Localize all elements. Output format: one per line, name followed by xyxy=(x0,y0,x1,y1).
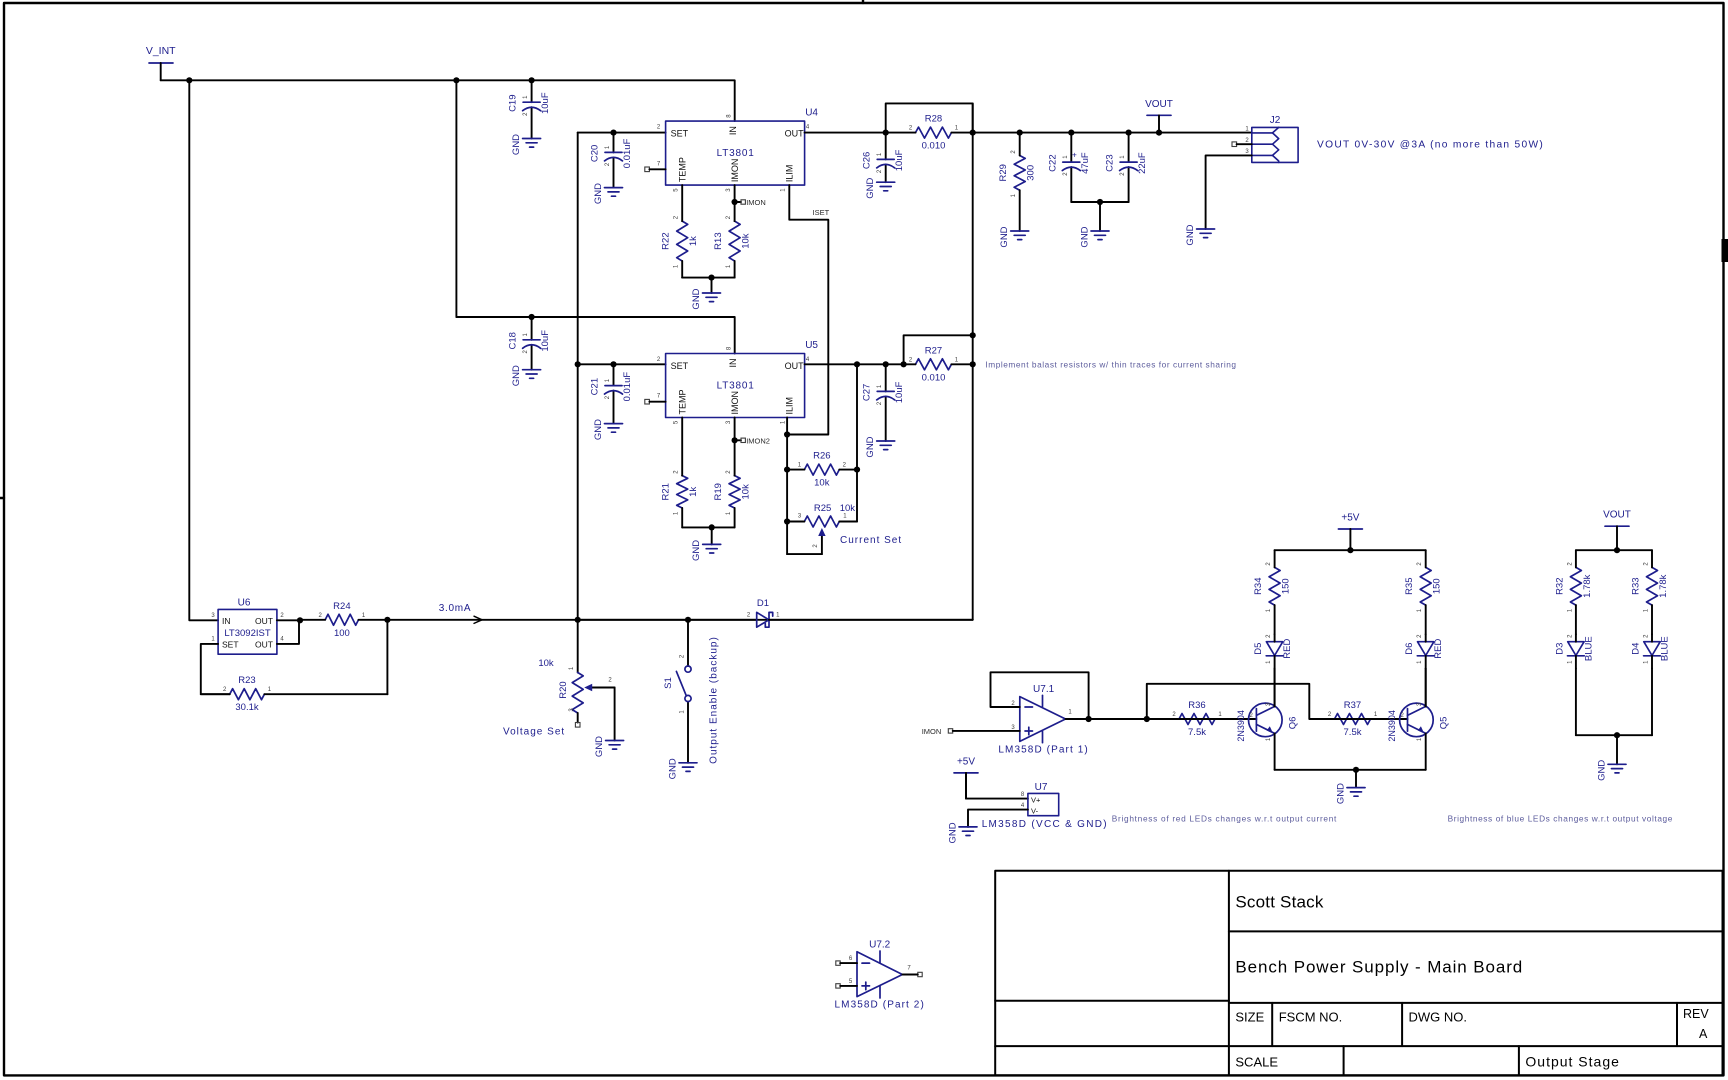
svg-text:C21: C21 xyxy=(590,378,601,395)
potentiometer R20 10k Voltage Set xyxy=(572,673,583,714)
svg-text:7.5k: 7.5k xyxy=(1188,727,1206,738)
svg-text:10k: 10k xyxy=(538,658,554,669)
svg-text:IMON: IMON xyxy=(730,159,740,183)
no-connect J2 pin2 xyxy=(1232,142,1237,147)
svg-text:R22: R22 xyxy=(661,232,672,249)
svg-text:D6: D6 xyxy=(1404,643,1415,655)
no-connect R20 pin3 xyxy=(575,723,580,728)
wire Q6 collector xyxy=(1274,668,1276,706)
svg-text:RED: RED xyxy=(1433,639,1444,659)
ground xyxy=(959,827,977,836)
LED D5 RED xyxy=(1266,642,1283,656)
resistor R22 1k xyxy=(677,221,688,261)
svg-text:IN: IN xyxy=(222,616,231,626)
svg-text:V+: V+ xyxy=(1031,795,1041,804)
svg-text:SET: SET xyxy=(222,639,239,649)
power symbol VOUT xyxy=(1147,114,1171,116)
wire D5 to Q6 collector xyxy=(1274,668,1276,706)
junction R27 right node xyxy=(970,361,976,367)
switch S1 Output Enable xyxy=(687,620,689,763)
svg-text:U6: U6 xyxy=(238,598,251,609)
svg-text:OUT: OUT xyxy=(255,616,273,626)
svg-text:150: 150 xyxy=(1432,578,1443,594)
wire branch to R37 xyxy=(1147,684,1335,719)
power symbol V_INT xyxy=(149,62,173,64)
svg-text:R36: R36 xyxy=(1188,700,1205,711)
svg-text:47uF: 47uF xyxy=(1080,152,1091,174)
svg-text:3.0mA: 3.0mA xyxy=(439,603,471,614)
diode D1 schottky xyxy=(757,612,773,627)
resistor R24 100 xyxy=(325,614,358,625)
wire top rail V_INT xyxy=(161,80,735,121)
svg-text:C22: C22 xyxy=(1047,154,1058,171)
svg-text:1k: 1k xyxy=(688,487,699,497)
svg-text:Voltage Set: Voltage Set xyxy=(503,727,565,738)
current arrow 3.0mA xyxy=(474,616,482,623)
svg-text:GND: GND xyxy=(865,178,876,199)
svg-text:GND: GND xyxy=(691,540,702,561)
capacitor C22 47uF xyxy=(1070,133,1072,202)
svg-text:R23: R23 xyxy=(238,675,255,686)
ground xyxy=(1347,788,1365,797)
junction VOUT tap blue xyxy=(1614,547,1620,553)
svg-text:TEMP: TEMP xyxy=(678,389,688,414)
wire J2 pin3 to gnd xyxy=(1206,155,1252,229)
svg-text:GND: GND xyxy=(511,365,522,386)
svg-text:U4: U4 xyxy=(805,108,818,119)
svg-text:1k: 1k xyxy=(688,236,699,246)
ground xyxy=(703,293,721,302)
resistor R29 300 xyxy=(1014,156,1025,191)
wire blue gnd stub xyxy=(1616,735,1618,764)
svg-text:C19: C19 xyxy=(508,94,519,111)
svg-text:D4: D4 xyxy=(1631,643,1642,655)
junction R27 loop right xyxy=(970,332,976,338)
svg-text:10uF: 10uF xyxy=(540,92,551,114)
regulator U4 LT3801 xyxy=(666,121,805,185)
svg-text:R21: R21 xyxy=(661,483,672,500)
ground xyxy=(877,182,895,191)
svg-text:Bench Power Supply - Main Boar: Bench Power Supply - Main Board xyxy=(1235,958,1523,977)
svg-text:R25: R25 xyxy=(814,503,831,514)
resistor R35 150 xyxy=(1420,567,1431,605)
wire V_INT stub xyxy=(160,63,162,80)
junction rail/C18 column xyxy=(453,77,459,83)
wire U6 OUT pin2 xyxy=(277,619,300,621)
svg-text:RED: RED xyxy=(1282,639,1293,659)
resistor R26 10k xyxy=(804,464,839,475)
svg-text:ISET: ISET xyxy=(813,208,830,217)
junction R25 left node xyxy=(784,518,790,524)
wire output sharing vertical xyxy=(972,103,974,619)
connector J2 xyxy=(1252,127,1298,162)
svg-text:OUT: OUT xyxy=(255,639,273,649)
capacitor C18 10uF xyxy=(531,317,533,370)
junction IMON2 tap xyxy=(732,437,738,443)
junction R24/R23 node xyxy=(384,617,390,623)
junction cap gnd row xyxy=(1097,199,1103,205)
svg-text:U5: U5 xyxy=(805,340,818,351)
LED D4 BLUE xyxy=(1644,642,1661,656)
op-amp U7.2 LM358D unused xyxy=(857,951,902,998)
wire U5 OUT wire xyxy=(805,363,904,365)
junction R26 left node xyxy=(784,467,790,473)
svg-text:TEMP: TEMP xyxy=(678,157,688,182)
op-amp power U7 LM358D VCC/GND xyxy=(1028,793,1059,815)
wire OUT node down to R26/R25 xyxy=(856,364,858,521)
wire left column to U6 xyxy=(189,80,218,620)
svg-text:VOUT: VOUT xyxy=(1603,510,1631,521)
wire ILIM down xyxy=(786,435,788,555)
svg-text:10uF: 10uF xyxy=(540,330,551,352)
svg-text:Brightness of blue LEDs change: Brightness of blue LEDs changes w.r.t ou… xyxy=(1448,814,1673,824)
svg-text:R20: R20 xyxy=(558,681,569,698)
wire U4 IMON pin xyxy=(734,185,736,221)
resistor R34 150 xyxy=(1269,567,1280,605)
resistor R28 0.010 xyxy=(916,127,952,138)
transistor Q5 2N3904 xyxy=(1400,703,1434,737)
wire D6 to Q5 collector xyxy=(1425,668,1427,706)
svg-text:10k: 10k xyxy=(814,478,830,489)
junction U6 out node xyxy=(297,617,303,623)
wire Q5 emitter xyxy=(1425,733,1427,769)
wire U7 pin4 to gnd xyxy=(968,810,1028,827)
svg-text:Scott Stack: Scott Stack xyxy=(1235,893,1323,912)
ground xyxy=(1091,231,1109,240)
svg-text:300: 300 xyxy=(1026,165,1037,181)
net label IMON2 xyxy=(741,438,745,442)
wire R21/R19 gnd row xyxy=(682,526,734,528)
svg-text:Q5: Q5 xyxy=(1438,717,1449,730)
wire IMON2 label stub xyxy=(735,439,741,441)
wire R36 to Q6 base xyxy=(1215,718,1256,720)
junction C18 tap xyxy=(529,314,535,320)
svg-text:GND: GND xyxy=(999,226,1010,247)
svg-text:7.5k: 7.5k xyxy=(1344,727,1362,738)
svg-text:R32: R32 xyxy=(1554,577,1565,594)
wire opamp output xyxy=(1066,718,1180,720)
junction SET vertical / U5 SET xyxy=(575,361,581,367)
wire U4 OUT wire xyxy=(805,132,886,134)
svg-text:10k: 10k xyxy=(840,503,856,514)
wire R25 wiper loop xyxy=(787,553,822,555)
svg-text:GND: GND xyxy=(1080,226,1091,247)
svg-text:SET: SET xyxy=(671,361,689,371)
potentiometer R25 10k Current Set xyxy=(804,516,839,527)
svg-text:D5: D5 xyxy=(1253,643,1264,655)
svg-text:R26: R26 xyxy=(813,451,830,462)
svg-text:U7.1: U7.1 xyxy=(1033,684,1055,695)
wire IMON label stub xyxy=(735,201,741,203)
wire U4 TEMP pin xyxy=(681,185,683,221)
junction R29 tap xyxy=(1017,130,1023,136)
junction rail/U6 column xyxy=(186,77,192,83)
wire SET vertical xyxy=(577,133,579,673)
ground xyxy=(605,188,623,197)
junction SET column node xyxy=(575,617,581,623)
svg-text:SET: SET xyxy=(671,129,689,139)
ground xyxy=(679,763,697,772)
op-amp U7.1 LM358D xyxy=(1020,695,1066,742)
svg-text:+5V: +5V xyxy=(957,756,975,767)
svg-text:1.78k: 1.78k xyxy=(1582,574,1593,597)
resistor R37 7.5k xyxy=(1335,714,1371,725)
resistor R27 0.010 xyxy=(916,359,952,370)
resistor R33 1.78k xyxy=(1647,567,1658,605)
svg-text:C26: C26 xyxy=(862,152,873,169)
wire IMON to +in xyxy=(953,730,1020,732)
wire D1 cathode wire xyxy=(769,619,973,621)
wire D3 down xyxy=(1575,668,1577,735)
svg-text:LM358D (Part 1): LM358D (Part 1) xyxy=(998,745,1088,756)
ground xyxy=(1608,764,1626,773)
junction +5V tap xyxy=(1347,547,1353,553)
junction SET rail / C21 xyxy=(610,361,616,367)
svg-text:Output Enable (backup): Output Enable (backup) xyxy=(709,636,720,764)
svg-text:GND: GND xyxy=(594,736,605,757)
svg-text:BLUE: BLUE xyxy=(1583,636,1594,661)
svg-text:R34: R34 xyxy=(1253,577,1264,594)
svg-text:IMON2: IMON2 xyxy=(746,436,770,445)
resistor R36 7.5k xyxy=(1179,714,1215,725)
ground xyxy=(1011,231,1029,240)
wire gnd stub U4 row xyxy=(711,278,713,293)
junction C22 tap xyxy=(1068,130,1074,136)
wire Q5 collector xyxy=(1425,668,1427,706)
svg-text:LM358D (VCC & GND): LM358D (VCC & GND) xyxy=(982,819,1108,830)
power symbol +5V xyxy=(1338,528,1362,530)
svg-text:IMON: IMON xyxy=(922,727,942,736)
no-connect U7.2 out xyxy=(918,972,922,976)
svg-text:R35: R35 xyxy=(1404,577,1415,594)
wire U6 SET to R23 xyxy=(201,644,230,694)
svg-text:GND: GND xyxy=(691,288,702,309)
junction OUT/C26/R28 xyxy=(883,130,889,136)
svg-text:LT3801: LT3801 xyxy=(717,148,755,159)
junction VOUT tap xyxy=(1156,130,1162,136)
capacitor C20 0.01uF xyxy=(613,133,615,188)
svg-text:+5V: +5V xyxy=(1341,513,1359,524)
wire U5 IMON pin xyxy=(734,418,736,476)
svg-text:SIZE: SIZE xyxy=(1235,1010,1264,1025)
svg-text:GND: GND xyxy=(1597,760,1608,781)
junction S1 tap xyxy=(685,617,691,623)
wire red gnd stub xyxy=(1355,770,1357,788)
wire column to C18 rail xyxy=(455,80,457,317)
svg-text:10k: 10k xyxy=(741,233,752,249)
svg-text:VOUT 0V-30V @3A (no more than: VOUT 0V-30V @3A (no more than 50W) xyxy=(1317,140,1544,151)
svg-text:OUT: OUT xyxy=(785,361,805,371)
svg-text:IMON: IMON xyxy=(746,198,766,207)
wire 3.0mA wire xyxy=(387,619,972,621)
svg-text:V-: V- xyxy=(1031,806,1039,815)
wire U6 OUT pin4 join xyxy=(277,620,299,644)
svg-text:REV: REV xyxy=(1683,1007,1709,1021)
junction SET rail / C20 xyxy=(610,130,616,136)
junction C23 tap xyxy=(1126,130,1132,136)
svg-text:R19: R19 xyxy=(713,483,724,500)
frame zone tick right edge xyxy=(1722,239,1728,262)
svg-text:10uF: 10uF xyxy=(894,149,905,171)
wire ILIM to ISET vertical xyxy=(787,434,828,436)
svg-text:Q6: Q6 xyxy=(1287,717,1298,730)
svg-text:10k: 10k xyxy=(741,484,752,500)
wire Q6 emitter xyxy=(1274,733,1276,769)
svg-text:OUT: OUT xyxy=(785,129,805,139)
LED D6 RED xyxy=(1417,642,1434,656)
svg-text:LT3092IST: LT3092IST xyxy=(224,628,270,639)
resistor R19 10k xyxy=(729,476,740,508)
junction IMON tap xyxy=(732,199,738,205)
no-connect TEMP pin U5 xyxy=(645,399,650,404)
capacitor C21 0.01uF xyxy=(613,364,615,423)
junction red gnd tap xyxy=(1353,767,1359,773)
svg-text:D1: D1 xyxy=(757,598,769,609)
svg-text:GND: GND xyxy=(511,134,522,155)
svg-text:IMON: IMON xyxy=(730,391,740,415)
svg-text:GND: GND xyxy=(1185,224,1196,245)
wire C22/C23 gnd row xyxy=(1071,201,1128,203)
wire D4 down xyxy=(1651,668,1653,735)
svg-text:GND: GND xyxy=(668,758,679,779)
svg-text:R28: R28 xyxy=(925,114,942,125)
ground xyxy=(523,139,541,148)
wire U7.2 -in xyxy=(840,962,857,964)
wire SET rail U4 xyxy=(578,132,666,134)
wire gnd stub U5 row xyxy=(711,527,713,544)
ground xyxy=(523,370,541,379)
junction OUT/down node xyxy=(854,361,860,367)
svg-text:A: A xyxy=(1699,1027,1708,1041)
svg-text:2N3904: 2N3904 xyxy=(1387,710,1397,742)
capacitor C19 10uF xyxy=(531,80,533,138)
svg-text:BLUE: BLUE xyxy=(1660,636,1671,661)
resistor R13 10k xyxy=(729,221,740,261)
resistor R23 30.1k xyxy=(230,689,265,700)
capacitor C23 22uF xyxy=(1128,133,1130,202)
wire U5 ILIM pin xyxy=(786,418,788,435)
svg-text:S1: S1 xyxy=(663,677,674,689)
junction R28 right node xyxy=(970,130,976,136)
no-connect U7.2 -in xyxy=(836,961,840,965)
ground xyxy=(605,424,623,433)
wire R27 bypass loop xyxy=(904,335,973,364)
junction fb node xyxy=(1086,716,1092,722)
ground xyxy=(877,441,895,450)
junction branch node xyxy=(1144,716,1150,722)
svg-text:+: + xyxy=(1072,150,1077,160)
wire R28 bypass loop xyxy=(886,103,973,132)
svg-text:D3: D3 xyxy=(1554,643,1565,655)
svg-text:100: 100 xyxy=(334,628,350,639)
junction gnd row U5 xyxy=(709,524,715,530)
svg-text:2N3904: 2N3904 xyxy=(1236,710,1246,742)
svg-text:GND: GND xyxy=(948,822,959,843)
wire output rail xyxy=(973,132,1252,134)
wire U7.2 out xyxy=(902,974,917,976)
svg-text:IN: IN xyxy=(728,359,738,368)
junction blue gnd tap xyxy=(1614,732,1620,738)
svg-text:GND: GND xyxy=(865,436,876,457)
regulator U5 LT3801 xyxy=(666,354,805,418)
svg-text:0.010: 0.010 xyxy=(922,141,946,152)
svg-text:DWG NO.: DWG NO. xyxy=(1409,1010,1468,1025)
wire U7.2 +in xyxy=(840,985,857,987)
svg-text:Output Stage: Output Stage xyxy=(1525,1054,1620,1070)
ground xyxy=(703,544,721,553)
svg-text:C27: C27 xyxy=(862,384,873,401)
regulator U6 LT3092IST xyxy=(218,609,277,654)
transistor Q6 2N3904 xyxy=(1249,703,1283,737)
svg-text:R27: R27 xyxy=(925,345,942,356)
svg-text:IN: IN xyxy=(728,126,738,135)
svg-text:0.010: 0.010 xyxy=(922,372,946,383)
wire R37 to Q5 base xyxy=(1371,718,1408,720)
wire VOUT rail blue xyxy=(1576,549,1652,551)
svg-text:C18: C18 xyxy=(508,332,519,349)
svg-text:SCALE: SCALE xyxy=(1235,1055,1278,1070)
svg-text:GND: GND xyxy=(593,419,604,440)
svg-text:LT3801: LT3801 xyxy=(717,381,755,392)
svg-text:0.01uF: 0.01uF xyxy=(622,138,633,168)
svg-text:C23: C23 xyxy=(1105,154,1116,171)
junction ILIM node xyxy=(784,431,790,437)
wire cap gnd stub xyxy=(1099,202,1101,231)
svg-text:R33: R33 xyxy=(1631,577,1642,594)
wire U4 ILIM to ISET xyxy=(789,185,828,434)
svg-text:0.01uF: 0.01uF xyxy=(622,372,633,402)
wire blue gnd rail xyxy=(1576,734,1652,736)
svg-text:GND: GND xyxy=(1336,783,1347,804)
wire SET rail U5 xyxy=(578,363,666,365)
svg-text:Brightness of red LEDs changes: Brightness of red LEDs changes w.r.t out… xyxy=(1112,814,1337,824)
resistor R32 1.78k xyxy=(1570,567,1581,605)
svg-text:22uF: 22uF xyxy=(1137,152,1148,174)
no-connect U7.2 +in xyxy=(836,984,840,988)
wire red gnd rail xyxy=(1275,769,1426,771)
junction gnd row U4 xyxy=(708,275,714,281)
svg-text:ILIM: ILIM xyxy=(785,165,795,183)
wire R22/R13 gnd row xyxy=(682,277,734,279)
wire +5V rail red xyxy=(1275,549,1426,551)
svg-text:Implement balast resistors w/: Implement balast resistors w/ thin trace… xyxy=(985,360,1236,370)
svg-text:Current Set: Current Set xyxy=(840,535,902,546)
svg-text:GND: GND xyxy=(593,183,604,204)
svg-text:C20: C20 xyxy=(590,145,601,162)
capacitor C26 10uF xyxy=(885,133,887,183)
svg-text:ILIM: ILIM xyxy=(785,397,795,415)
junction R27 left node xyxy=(901,361,907,367)
svg-text:U7.2: U7.2 xyxy=(869,940,891,951)
title block xyxy=(995,871,1722,1076)
junction R26 right node xyxy=(854,467,860,473)
wire R23 up to out node xyxy=(386,620,388,694)
ground xyxy=(1197,229,1215,238)
svg-text:LM358D (Part 2): LM358D (Part 2) xyxy=(834,1000,924,1011)
wire +5V to U7 pin8 xyxy=(966,773,1028,799)
wire C18 rail to U5 IN xyxy=(456,317,734,354)
ground xyxy=(606,741,624,750)
svg-text:R29: R29 xyxy=(998,164,1009,181)
svg-text:FSCM NO.: FSCM NO. xyxy=(1279,1010,1343,1025)
svg-text:V_INT: V_INT xyxy=(146,45,176,57)
junction OUT/C27 xyxy=(883,361,889,367)
LED D3 BLUE xyxy=(1568,642,1585,656)
junction rail/C19 xyxy=(529,77,535,83)
svg-text:1.78k: 1.78k xyxy=(1658,574,1669,597)
power symbol VOUT xyxy=(1605,525,1629,527)
wire feedback loop xyxy=(991,672,1089,719)
